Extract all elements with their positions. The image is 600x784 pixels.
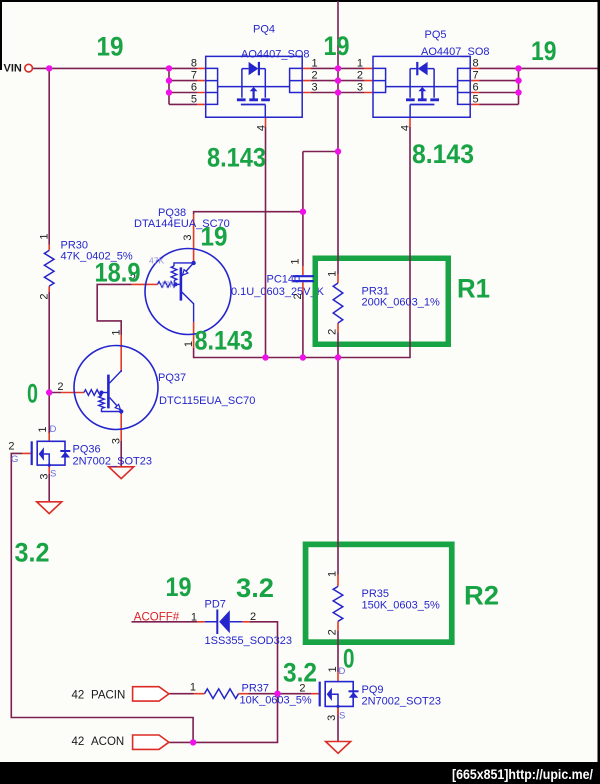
svg-text:4: 4 (255, 125, 267, 131)
svg-text:1: 1 (190, 682, 196, 694)
svg-text:PQ37: PQ37 (158, 372, 186, 384)
svg-text:1: 1 (289, 259, 301, 265)
svg-text:ACOFF#: ACOFF# (134, 612, 180, 624)
svg-text:2: 2 (327, 629, 339, 635)
svg-text:3: 3 (110, 438, 122, 444)
svg-text:PQ9: PQ9 (362, 684, 384, 696)
svg-text:0.1U_0603_25V_K: 0.1U_0603_25V_K (231, 286, 325, 298)
svg-text:1: 1 (39, 234, 51, 240)
svg-text:PC140: PC140 (267, 274, 301, 286)
svg-text:47K: 47K (160, 280, 175, 290)
svg-text:PR35: PR35 (362, 588, 390, 600)
svg-text:PQ36: PQ36 (73, 444, 101, 456)
svg-text:1: 1 (327, 666, 339, 672)
svg-text:0: 0 (27, 379, 38, 409)
svg-text:R1: R1 (457, 274, 490, 304)
svg-text:4: 4 (400, 125, 412, 131)
svg-text:19: 19 (201, 222, 228, 252)
svg-text:PQ4: PQ4 (253, 24, 275, 36)
svg-text:7: 7 (191, 70, 197, 82)
svg-text:3.2: 3.2 (236, 573, 274, 603)
svg-text:DTC115EUA_SC70: DTC115EUA_SC70 (159, 395, 255, 407)
svg-text:5: 5 (191, 93, 197, 105)
svg-text:2: 2 (327, 329, 339, 335)
svg-text:1: 1 (327, 571, 339, 577)
svg-text:2N7002_SOT23: 2N7002_SOT23 (362, 696, 442, 708)
svg-text:8.143: 8.143 (412, 139, 474, 169)
svg-text:10K_0603_5%: 10K_0603_5% (240, 695, 312, 707)
svg-text:5: 5 (473, 93, 479, 105)
svg-text:6: 6 (191, 82, 197, 94)
svg-text:2: 2 (292, 293, 304, 299)
svg-text:19: 19 (531, 36, 557, 66)
svg-text:2: 2 (250, 611, 256, 623)
svg-text:3: 3 (326, 715, 338, 721)
svg-text:AO4407_SO8: AO4407_SO8 (421, 46, 490, 58)
svg-text:0: 0 (343, 644, 355, 674)
svg-text:1: 1 (327, 271, 339, 277)
svg-text:1: 1 (110, 329, 122, 335)
svg-text:19: 19 (324, 31, 350, 61)
svg-text:G: G (11, 454, 18, 465)
svg-text:PQ5: PQ5 (425, 29, 447, 41)
svg-text:200K_0603_1%: 200K_0603_1% (362, 297, 441, 309)
svg-text:42: 42 (72, 689, 85, 701)
svg-text:42: 42 (72, 736, 85, 748)
svg-text:7: 7 (473, 70, 479, 82)
svg-text:AO4407_SO8: AO4407_SO8 (241, 49, 310, 61)
svg-text:6: 6 (473, 82, 479, 94)
svg-text:1SS355_SOD323: 1SS355_SOD323 (205, 635, 292, 647)
svg-text:18.9: 18.9 (95, 258, 141, 288)
svg-text:2: 2 (39, 294, 51, 300)
svg-text:2N7002_SOT23: 2N7002_SOT23 (73, 456, 153, 468)
svg-text:2: 2 (8, 441, 14, 453)
svg-text:3: 3 (38, 473, 50, 479)
svg-text:1: 1 (37, 426, 49, 432)
svg-text:3: 3 (312, 82, 318, 94)
svg-text:D: D (50, 424, 57, 435)
svg-text:8.143: 8.143 (195, 326, 254, 356)
svg-text:VIN: VIN (4, 63, 22, 75)
svg-text:8: 8 (473, 57, 479, 69)
svg-text:8.143: 8.143 (207, 143, 266, 173)
svg-text:3.2: 3.2 (283, 658, 317, 688)
svg-text:[665x851]http://upic.me/: [665x851]http://upic.me/ (452, 767, 593, 782)
svg-text:19: 19 (166, 572, 192, 602)
svg-text:S: S (50, 469, 56, 480)
svg-text:PD7: PD7 (205, 599, 226, 611)
svg-text:1: 1 (183, 341, 195, 347)
svg-text:1: 1 (312, 57, 318, 69)
svg-text:47K: 47K (149, 256, 164, 266)
svg-text:PR37: PR37 (242, 683, 270, 695)
svg-text:1: 1 (191, 612, 197, 624)
svg-text:2: 2 (57, 381, 63, 393)
svg-text:2: 2 (357, 70, 363, 82)
svg-text:3: 3 (357, 82, 363, 94)
svg-text:3: 3 (182, 234, 194, 240)
svg-text:3.2: 3.2 (15, 538, 50, 568)
svg-text:R2: R2 (464, 581, 499, 611)
svg-text:PACIN: PACIN (91, 689, 125, 701)
svg-text:19: 19 (97, 32, 124, 62)
svg-text:8: 8 (191, 57, 197, 69)
svg-text:2: 2 (312, 70, 318, 82)
svg-text:ACON: ACON (91, 736, 124, 748)
svg-text:150K_0603_5%: 150K_0603_5% (362, 600, 441, 612)
svg-text:1: 1 (357, 57, 363, 69)
svg-text:S: S (339, 711, 345, 722)
